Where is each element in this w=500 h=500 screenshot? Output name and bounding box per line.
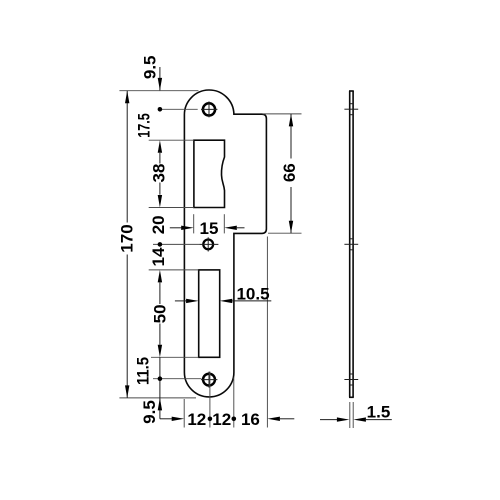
pilot hole middle (203, 240, 213, 250)
svg-text:12: 12 (187, 410, 206, 429)
svg-text:10.5: 10.5 (236, 285, 269, 304)
dim 50 (158, 270, 162, 283)
screw hole bottom (203, 374, 215, 386)
dim 1.5 (349, 402, 351, 428)
dim line 170 (126, 91, 128, 223)
bottom dim row 12 12 16 (160, 418, 172, 420)
svg-text:12: 12 (212, 410, 231, 429)
svg-text:16: 16 (241, 410, 260, 429)
dim 10.5 (175, 300, 186, 302)
extension lines left (119, 90, 198, 92)
deadbolt cutout rectangle (199, 270, 220, 357)
dot at pilot hole center (158, 242, 163, 247)
dim 9.5 bottom (158, 398, 162, 411)
svg-text:1.5: 1.5 (367, 402, 391, 421)
svg-text:9.5: 9.5 (141, 55, 160, 79)
extension lines 15 (193, 214, 195, 233)
plate outline front view (184, 90, 266, 397)
latch cutout rectangle (wavy right edge) (194, 140, 225, 207)
dim 66 right (290, 114, 292, 159)
svg-text:66: 66 (280, 163, 299, 182)
svg-text:17.5: 17.5 (135, 113, 154, 138)
svg-text:9.5: 9.5 (140, 400, 159, 424)
svg-text:20: 20 (149, 215, 168, 234)
svg-text:15: 15 (200, 219, 219, 238)
dim 15 (170, 227, 182, 229)
side view bar (349, 91, 351, 397)
svg-text:170: 170 (117, 224, 136, 252)
dim 11.5 (159, 357, 161, 419)
extension lines bottom (183, 399, 185, 428)
dim 38 (158, 140, 162, 153)
chain dim line (159, 67, 161, 90)
svg-text:11.5: 11.5 (133, 357, 152, 385)
svg-text:38: 38 (150, 164, 169, 183)
svg-text:50: 50 (150, 304, 169, 323)
extension lines right (66) (263, 113, 302, 115)
screw hole top (203, 103, 215, 115)
dot at hole1 center (158, 107, 163, 112)
svg-text:14: 14 (149, 247, 168, 266)
side view hole ticks (344, 108, 358, 110)
